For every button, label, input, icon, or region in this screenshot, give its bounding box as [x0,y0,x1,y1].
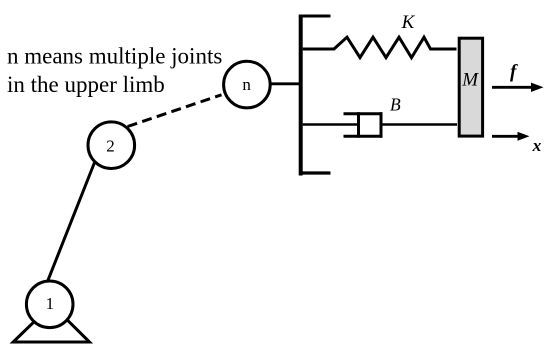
svg-text:n: n [242,75,251,94]
svg-text:M: M [461,70,479,91]
svg-text:2: 2 [106,136,115,155]
svg-text:x: x [532,136,542,155]
svg-text:n means multiple joints: n means multiple joints [7,44,222,69]
svg-text:B: B [390,95,401,115]
svg-text:K: K [401,12,416,33]
svg-text:in the upper limb: in the upper limb [7,72,165,97]
svg-text:1: 1 [46,294,55,313]
